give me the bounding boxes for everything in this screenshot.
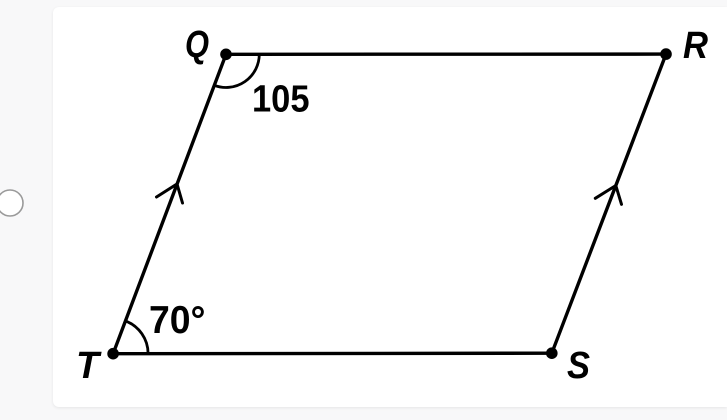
parallel arrow on SR [595, 186, 621, 205]
vertex dot T [107, 348, 119, 360]
svg-text:70°: 70° [149, 299, 206, 342]
svg-text:105: 105 [252, 79, 310, 121]
vertex dot S [546, 347, 558, 359]
side TQ [113, 54, 226, 353]
side ST [113, 352, 552, 356]
svg-text:T: T [76, 345, 102, 387]
svg-text:S: S [567, 345, 590, 387]
vertex dot Q [220, 49, 232, 61]
svg-text:Q: Q [185, 24, 209, 66]
side RS [552, 54, 666, 353]
side QR [226, 52, 666, 56]
radio button [0, 190, 23, 216]
angle arc at T [125, 321, 148, 354]
svg-text:R: R [683, 25, 708, 67]
angle arc at Q [214, 54, 259, 87]
parallel arrow on TQ [157, 184, 183, 203]
vertex dot R [660, 48, 672, 60]
